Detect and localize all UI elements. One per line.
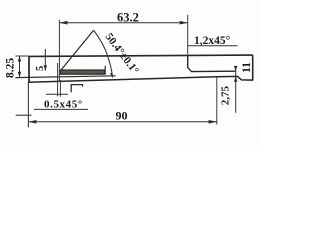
part bottom edge [28, 76, 253, 82]
svg-text:63.2: 63.2 [117, 10, 139, 24]
extension line right of 63.2 [187, 15, 189, 56]
dim 8.25 bottom arrow [18, 72, 21, 78]
dim 63.2 left arrow [59, 21, 67, 25]
dim 5 bottom arrow [44, 65, 48, 71]
svg-text:50.4°±0.1°: 50.4°±0.1° [103, 31, 141, 76]
dim 90 line [28, 121, 216, 123]
bevel face line extended to apex [60, 30, 94, 71]
dim 63.2 right arrow [180, 21, 188, 25]
svg-text:5: 5 [35, 66, 46, 71]
part right edge / 11 dim line [252, 55, 254, 80]
svg-text:11: 11 [241, 62, 253, 73]
chamfer note 0.5x45 underline [34, 108, 88, 110]
dim 5 line [44, 49, 46, 71]
dim 2.75 top arrow [234, 66, 237, 71]
svg-text:1,2x45°: 1,2x45° [194, 35, 231, 47]
dim 90 left extension (part edge extended) [27, 82, 29, 128]
dim 8.25 top arrow [18, 56, 21, 62]
land end tick [104, 66, 106, 75]
dim 90 left arrow [28, 120, 36, 124]
svg-text:0.5x45°: 0.5x45° [44, 99, 83, 111]
svg-text:8.25: 8.25 [5, 58, 17, 78]
blade insert thin section (black land) [60, 70, 105, 74]
dim 8.25 line [19, 56, 21, 77]
recess step with 1.2x45 chamfer [188, 56, 236, 72]
svg-text:90: 90 [116, 108, 128, 122]
leader verticals below blade tip [57, 63, 59, 96]
dim 90 right arrow [209, 120, 217, 124]
part top edge with left extension [16, 55, 30, 57]
insert seam line (left section bottom, 8.25 ref) [16, 76, 116, 78]
dim 90 right extension [216, 77, 218, 125]
arc end arrowhead [110, 72, 113, 77]
leader tick [46, 93, 68, 95]
dim 2.75 line [235, 66, 237, 113]
dim 63.2 line [59, 22, 187, 24]
dim 5 top tick [43, 55, 49, 57]
extension line at blade tip [58, 20, 60, 82]
angle dimension arc [94, 30, 113, 77]
svg-text:2,75: 2,75 [220, 86, 232, 106]
stray tick left of 90 extension [16, 114, 32, 116]
dim 2.75 bottom arrow [234, 76, 237, 81]
part left edge [28, 56, 30, 82]
chamfer note 1.2x45 underline leader [188, 45, 238, 47]
corner mark at chamfer [71, 85, 82, 93]
